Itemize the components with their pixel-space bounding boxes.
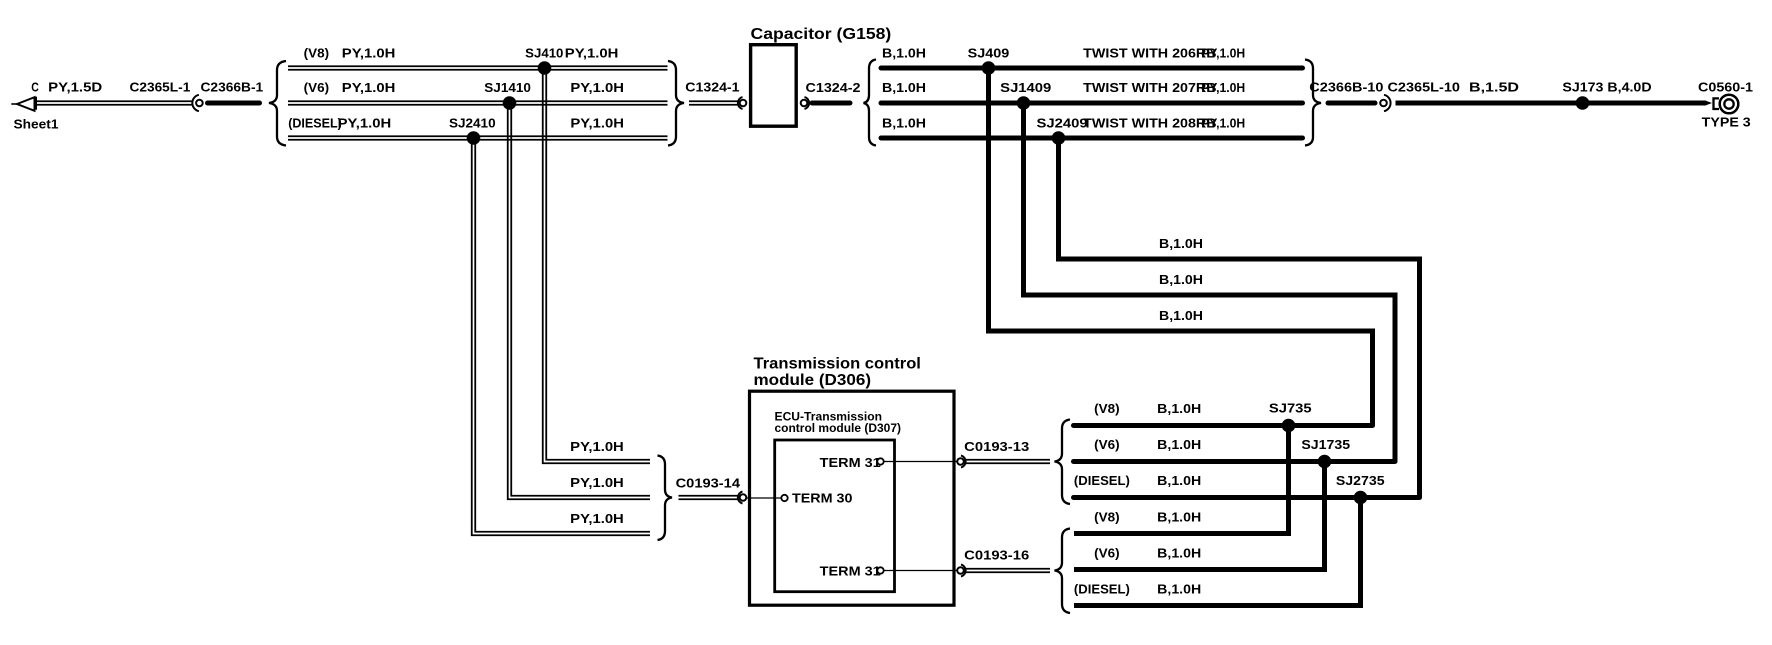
svg-text:control module (D307): control module (D307) <box>775 421 902 435</box>
wire B,4.0D (thick) <box>1583 101 1707 106</box>
brace right of PY group <box>668 61 684 146</box>
svg-text:B,1.0H: B,1.0H <box>1157 582 1201 597</box>
svg-text:SJ410: SJ410 <box>525 46 563 61</box>
connector C0193-13 <box>957 456 965 468</box>
svg-text:C0193-14: C0193-14 <box>676 475 741 490</box>
splice SJ410 <box>538 61 552 75</box>
wire to C1324-1 (double line) <box>689 101 738 105</box>
svg-text:(V6): (V6) <box>1094 437 1119 452</box>
svg-text:C1324-2: C1324-2 <box>806 80 861 95</box>
svg-text:PY,1.0H: PY,1.0H <box>570 439 624 454</box>
wire SJ735 branch down to V8 row <box>1074 426 1289 534</box>
ground eyelet C0560-1 TYPE 3 <box>1714 95 1739 114</box>
svg-text:PY,1.0H: PY,1.0H <box>1201 46 1245 61</box>
svg-text:PY,1.0H: PY,1.0H <box>570 475 624 490</box>
wire from SJ2409 down right and down <box>1059 138 1420 498</box>
svg-text:PY,1.0H: PY,1.0H <box>342 46 396 61</box>
wire (DIESEL) B,1.0H row <box>1074 495 1420 500</box>
svg-text:TWIST WITH 206RB: TWIST WITH 206RB <box>1083 46 1216 61</box>
svg-text:B,1.0H: B,1.0H <box>1157 546 1201 561</box>
connector C0193-14 <box>738 492 746 504</box>
wire B,1.0H row2 <box>881 101 1303 106</box>
brace right of lower PY group <box>658 456 673 541</box>
wire to C2366B-10 (thick) <box>1328 101 1375 106</box>
splice SJ2410 <box>467 131 481 145</box>
connector C2366B-10 / C2365L-10 <box>1380 95 1390 111</box>
connector C0193-16 <box>957 565 965 577</box>
module D306 box <box>750 391 955 605</box>
svg-text:TERM 31: TERM 31 <box>820 455 881 470</box>
splice SJ735 <box>1282 419 1296 433</box>
wire from SJ410 down and right <box>543 68 650 463</box>
svg-text:module (D306): module (D306) <box>754 372 872 389</box>
svg-text:TERM 31: TERM 31 <box>820 564 881 579</box>
connector C1324-2 <box>801 97 809 109</box>
eyelet tip <box>1706 101 1712 106</box>
svg-text:PY,1.0H: PY,1.0H <box>570 116 624 131</box>
svg-text:TWIST WITH 207RB: TWIST WITH 207RB <box>1083 80 1216 95</box>
wire from SJ1410 down and right <box>508 103 650 499</box>
wire from SJ1409 down right and down <box>1024 103 1396 462</box>
wire from C1324-2 (thick) <box>812 101 850 106</box>
capacitor G158 box <box>751 45 797 127</box>
svg-text:SJ1409: SJ1409 <box>1000 80 1051 95</box>
svg-text:PY,1.0H: PY,1.0H <box>1201 80 1245 95</box>
svg-text:C: C <box>31 79 39 94</box>
svg-text:(V8): (V8) <box>1094 401 1119 416</box>
svg-text:TWIST WITH 208RB: TWIST WITH 208RB <box>1083 116 1216 131</box>
pin TERM 31 top wire <box>884 461 958 463</box>
svg-text:B,1.0H: B,1.0H <box>1159 308 1203 323</box>
svg-text:(DIESEL): (DIESEL) <box>288 116 342 131</box>
svg-text:C2366B-10 C2365L-10: C2366B-10 C2365L-10 <box>1309 80 1460 95</box>
svg-text:(V6): (V6) <box>1094 546 1119 561</box>
pin TERM 31 top <box>877 458 883 464</box>
svg-text:B,1.0H: B,1.0H <box>1157 401 1201 416</box>
svg-text:B,1.0H: B,1.0H <box>882 46 926 61</box>
wire B,1.0H row1 <box>881 66 1303 71</box>
svg-text:C0193-13: C0193-13 <box>964 439 1029 454</box>
off-page arrow to Sheet1 <box>11 103 17 105</box>
wire B,1.5D (thick) <box>1396 101 1583 106</box>
svg-text:PY,1.0H: PY,1.0H <box>338 116 392 131</box>
brace right of C0193-13 <box>1055 420 1071 505</box>
svg-text:B,1.0H: B,1.0H <box>1157 437 1201 452</box>
splice SJ409 <box>982 61 996 75</box>
splice SJ1410 <box>503 96 517 110</box>
brace left of PY group <box>269 61 286 146</box>
wire stub (thick) after C2366B-1 <box>208 101 260 106</box>
svg-text:PY,1.0H: PY,1.0H <box>1201 116 1245 131</box>
wire (V8) B,1.0H row <box>1074 423 1373 428</box>
svg-text:C2366B-1: C2366B-1 <box>201 79 264 94</box>
svg-text:Transmission control: Transmission control <box>754 356 921 373</box>
svg-text:PY,1.0H: PY,1.0H <box>565 46 619 61</box>
svg-text:SJ2735: SJ2735 <box>1336 473 1385 488</box>
wire to C0193-13 (double line) <box>966 460 1050 464</box>
svg-text:B,1.5D: B,1.5D <box>1469 80 1519 95</box>
splice SJ2735 <box>1354 491 1368 505</box>
svg-text:(V8): (V8) <box>1094 510 1119 525</box>
svg-text:TERM 30: TERM 30 <box>792 491 853 506</box>
wire (DIESEL) PY,1.0H row3 <box>288 136 668 140</box>
svg-text:PY,1.0H: PY,1.0H <box>570 511 624 526</box>
wire (V8) PY,1.0H row1 <box>288 66 668 70</box>
pin TERM 31 bottom <box>877 567 883 573</box>
svg-text:SJ409: SJ409 <box>968 46 1010 61</box>
wire (V6) PY,1.0H row2 <box>288 101 668 105</box>
wire SJ1735 branch down to V6 row <box>1074 462 1325 570</box>
svg-text:PY,1.0H: PY,1.0H <box>570 80 624 95</box>
ECU D307 box <box>775 440 895 592</box>
svg-text:SJ173 B,4.0D: SJ173 B,4.0D <box>1562 80 1651 95</box>
wire from SJ409 down right and down <box>989 68 1373 426</box>
wire B,1.0H row3 <box>881 136 1303 141</box>
svg-text:(V8): (V8) <box>304 46 329 61</box>
splice SJ2409 <box>1052 131 1066 145</box>
svg-text:C0193-16: C0193-16 <box>964 548 1029 563</box>
svg-text:B,1.0H: B,1.0H <box>882 80 926 95</box>
pin TERM 30 wire <box>747 497 782 499</box>
svg-text:TYPE 3: TYPE 3 <box>1702 115 1751 130</box>
svg-text:C0560-1: C0560-1 <box>1698 79 1753 94</box>
svg-text:B,1.0H: B,1.0H <box>1159 272 1203 287</box>
splice SJ1409 <box>1017 96 1031 110</box>
svg-text:B,1.0H: B,1.0H <box>882 116 926 131</box>
svg-text:PY,1.5D: PY,1.5D <box>48 79 102 94</box>
svg-text:(DIESEL): (DIESEL) <box>1074 582 1130 597</box>
wire (V6) B,1.0H row <box>1074 459 1396 464</box>
wire to C0193-16 (double line) <box>966 569 1050 573</box>
svg-text:SJ2409: SJ2409 <box>1037 116 1088 131</box>
splice SJ173 <box>1576 96 1590 110</box>
svg-text:Sheet1: Sheet1 <box>14 117 59 132</box>
wire to C0193-14 (double line) <box>679 496 739 500</box>
wire SJ2735 branch down to DIESEL row <box>1074 498 1361 606</box>
svg-text:C2365L-1: C2365L-1 <box>130 79 191 94</box>
pin TERM 31 bottom wire <box>884 570 958 572</box>
svg-text:B,1.0H: B,1.0H <box>1157 473 1201 488</box>
brace right of C0193-16 <box>1055 529 1071 614</box>
brace left of B group <box>864 60 877 146</box>
brace right of B group <box>1305 60 1321 146</box>
svg-text:SJ2410: SJ2410 <box>449 116 496 131</box>
svg-text:Capacitor (G158): Capacitor (G158) <box>751 26 892 43</box>
svg-text:SJ1735: SJ1735 <box>1301 437 1350 452</box>
svg-text:C1324-1: C1324-1 <box>685 79 739 94</box>
svg-text:PY,1.0H: PY,1.0H <box>342 80 396 95</box>
svg-text:B,1.0H: B,1.0H <box>1159 236 1203 251</box>
svg-text:SJ1410: SJ1410 <box>484 80 531 95</box>
connector C1324-1 <box>738 97 746 109</box>
svg-text:B,1.0H: B,1.0H <box>1157 510 1201 525</box>
svg-text:SJ735: SJ735 <box>1269 401 1312 416</box>
svg-text:(V6): (V6) <box>304 80 329 95</box>
splice SJ1735 <box>1318 455 1332 469</box>
wire from SJ2410 down and right <box>472 138 650 535</box>
pin TERM 30 <box>781 495 787 501</box>
wire C PY,1.5D (double line) <box>37 101 193 105</box>
svg-text:(DIESEL): (DIESEL) <box>1074 473 1130 488</box>
connector C2365L-1 / C2366B-1 <box>192 95 202 111</box>
